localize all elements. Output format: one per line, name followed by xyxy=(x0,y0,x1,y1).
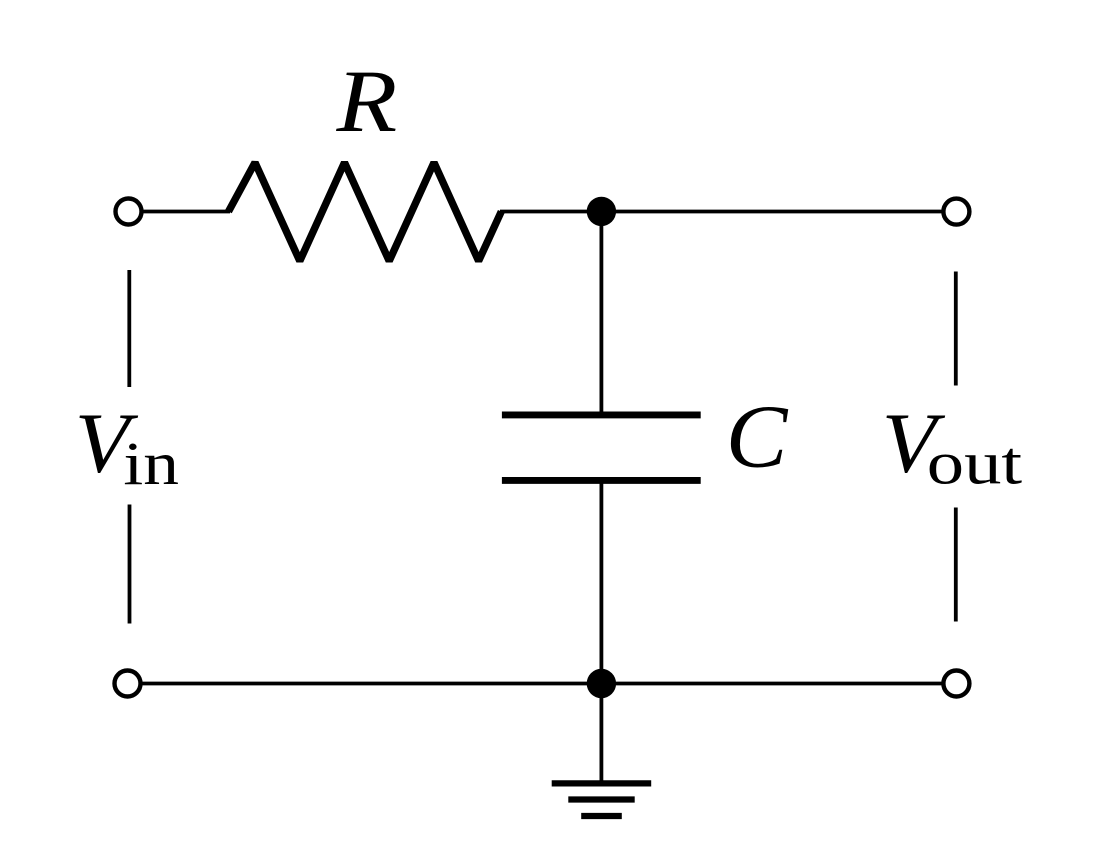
wire node B to ground xyxy=(600,684,604,784)
label R xyxy=(335,53,397,151)
label C xyxy=(726,387,789,487)
capacitor C bottom plate xyxy=(502,477,701,484)
wire resistor to top-right terminal xyxy=(500,210,943,214)
resistor R xyxy=(229,163,502,262)
terminal top-left xyxy=(116,199,142,225)
svg-text:R: R xyxy=(335,53,397,151)
Vin port marker upper segment xyxy=(127,270,131,387)
terminal bottom-right xyxy=(943,671,969,697)
node B (bottom junction dot) xyxy=(587,669,616,698)
terminal top-right xyxy=(943,199,969,225)
svg-text:in: in xyxy=(123,431,179,498)
terminal bottom-left xyxy=(115,671,141,697)
Vin port marker lower segment xyxy=(128,505,132,624)
wire top-left (input to resistor) xyxy=(141,210,230,214)
svg-text:out: out xyxy=(927,429,1022,497)
capacitor C top plate xyxy=(502,411,701,418)
svg-text:C: C xyxy=(726,387,789,487)
ground xyxy=(552,783,652,816)
label Vin xyxy=(75,396,139,491)
wire node to capacitor top plate xyxy=(600,211,604,415)
wire bottom rail xyxy=(140,682,943,686)
wire capacitor to bottom rail xyxy=(600,480,604,683)
Vout port marker lower segment xyxy=(954,508,958,622)
node A (top junction dot) xyxy=(587,197,616,226)
Vout port marker upper segment xyxy=(954,272,958,386)
label Vout xyxy=(882,396,946,491)
